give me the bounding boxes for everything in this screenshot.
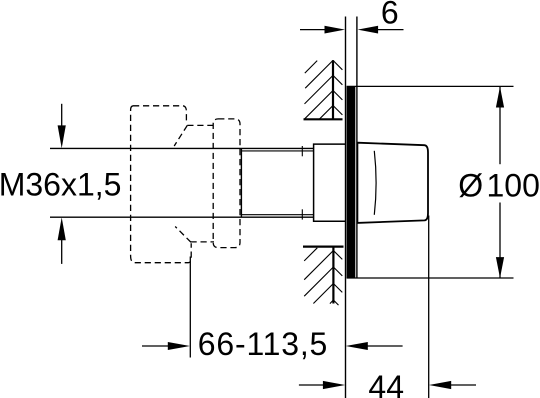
svg-text:66-113,5: 66-113,5	[198, 326, 328, 362]
svg-text:6: 6	[381, 0, 399, 30]
svg-text:44: 44	[368, 369, 404, 398]
svg-text:Ø: Ø	[458, 168, 483, 204]
svg-text:M36x1,5: M36x1,5	[0, 166, 121, 202]
svg-text:100: 100	[487, 168, 540, 204]
